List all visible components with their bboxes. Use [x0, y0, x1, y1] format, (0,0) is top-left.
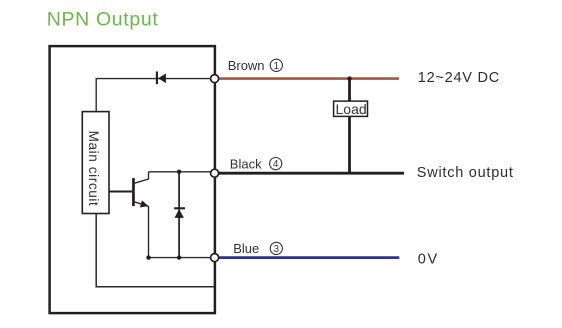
svg-text:4: 4 — [273, 159, 279, 170]
svg-text:NPN Output: NPN Output — [47, 8, 159, 30]
svg-text:Blue: Blue — [233, 241, 259, 256]
svg-text:Load: Load — [336, 101, 367, 117]
svg-text:Brown: Brown — [228, 58, 265, 73]
svg-text:Main circuit: Main circuit — [86, 131, 101, 207]
svg-text:Switch output: Switch output — [417, 165, 514, 181]
svg-text:Black: Black — [230, 156, 262, 171]
svg-text:1: 1 — [274, 61, 280, 72]
svg-text:3: 3 — [274, 244, 280, 255]
svg-text:0V: 0V — [418, 252, 439, 268]
svg-text:12~24V DC: 12~24V DC — [418, 70, 500, 86]
